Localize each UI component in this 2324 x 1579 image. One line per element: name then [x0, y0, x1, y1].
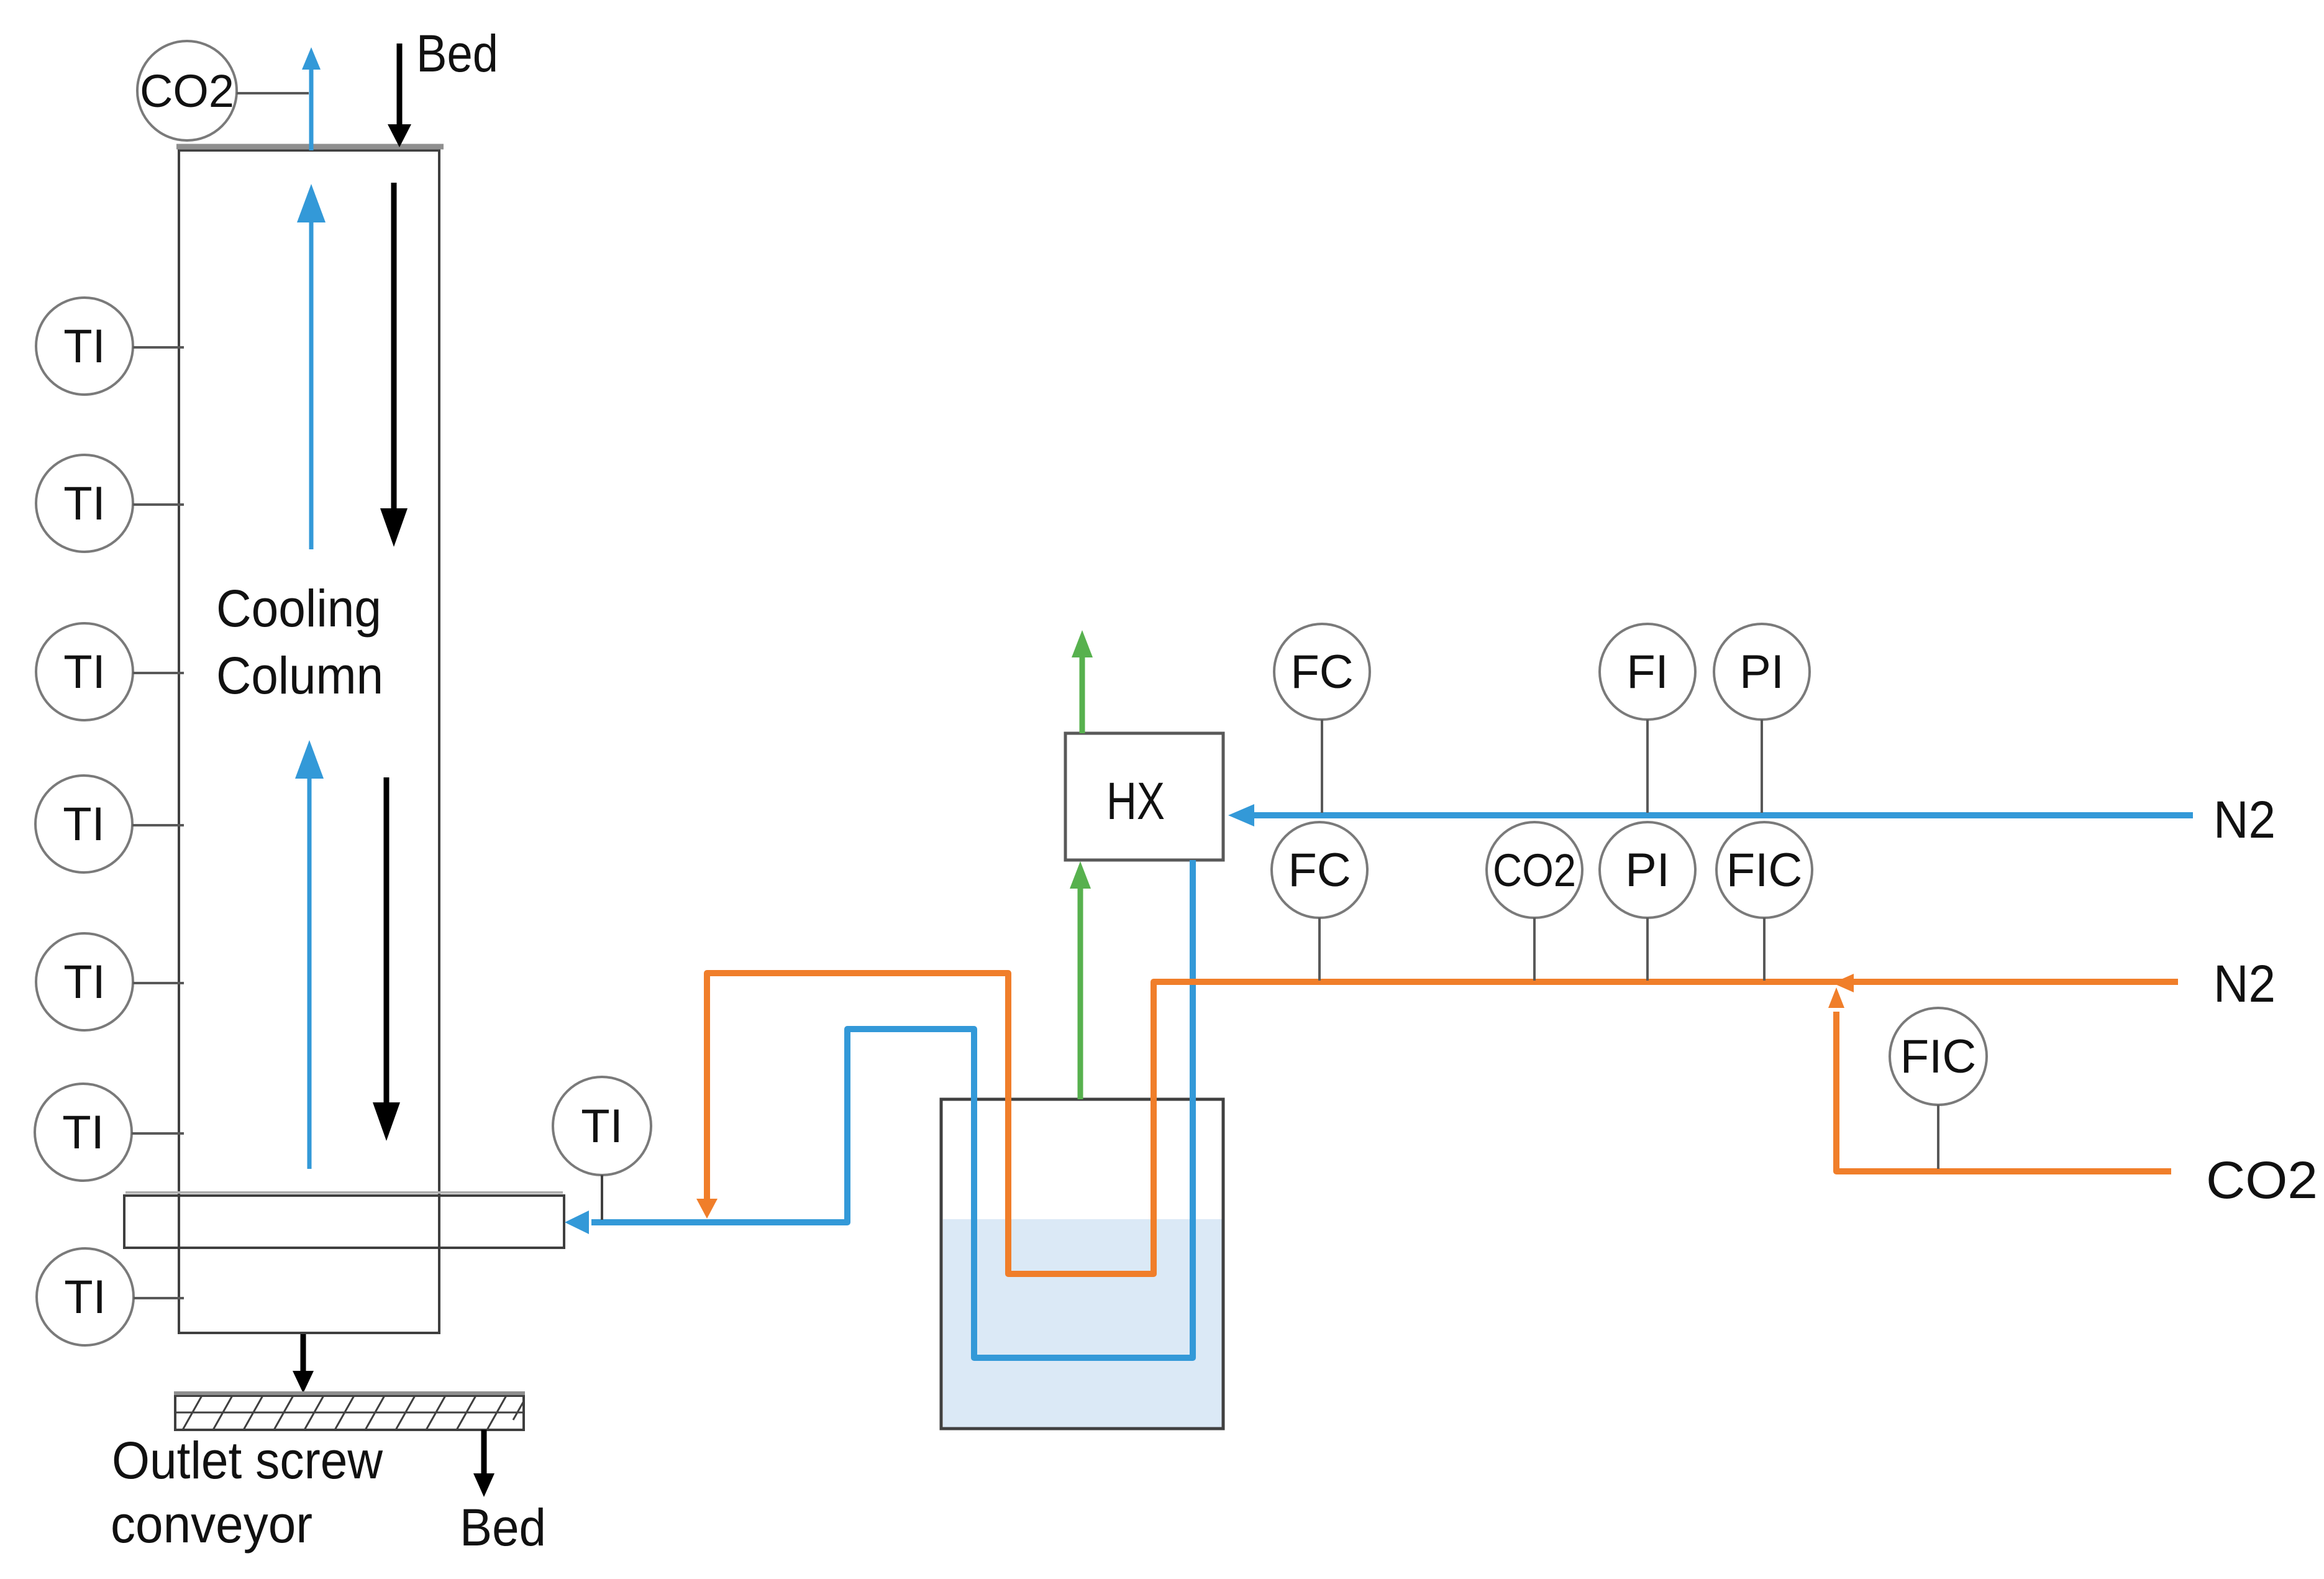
- svg-text:N2: N2: [2213, 790, 2276, 849]
- wire CO2 vent arrow (blue, out of column top): [302, 47, 321, 150]
- svg-text:TI: TI: [63, 320, 106, 373]
- instrument TI7: [37, 1248, 134, 1345]
- wire FIC CO2 stem: [1937, 1105, 1939, 1169]
- svg-text:FIC: FIC: [1726, 844, 1802, 897]
- instrument FIC on CO2 line: [1890, 1008, 1987, 1105]
- svg-text:HX: HX: [1106, 772, 1165, 830]
- svg-text:TI: TI: [63, 798, 105, 851]
- wire TI5 stub: [133, 982, 184, 984]
- wire bed outlet arrow below column: [293, 1334, 314, 1393]
- svg-text:Bed: Bed: [416, 24, 498, 83]
- svg-text:PI: PI: [1625, 844, 1670, 897]
- instrument FIC row2: [1716, 822, 1812, 918]
- cooling column vessel: [176, 147, 444, 1333]
- svg-text:TI: TI: [581, 1100, 623, 1153]
- svg-text:Bed: Bed: [460, 1498, 546, 1557]
- instrument TI6: [35, 1084, 132, 1181]
- instrument TI4: [35, 776, 132, 872]
- wire blue up arrow inside column (lower): [295, 740, 324, 1169]
- instrument CO2 top: [137, 41, 237, 140]
- wire orange left arrow at CO2 junction: [1833, 974, 1854, 992]
- wire TI1 stub: [133, 346, 184, 349]
- wire FC row2 stem: [1318, 918, 1321, 981]
- svg-text:conveyor: conveyor: [111, 1495, 312, 1554]
- wire orange N2 line with dip coil in vessel: [707, 973, 2178, 1274]
- instrument TI3: [36, 623, 133, 720]
- wire CO2 instrument stub: [237, 92, 309, 94]
- instrument FC row1: [1274, 624, 1370, 720]
- svg-text:FC: FC: [1288, 844, 1351, 897]
- svg-text:CO2: CO2: [2206, 1151, 2318, 1209]
- wire TI3 stub: [133, 672, 184, 674]
- wire blue arrow into conveyor duct: [565, 1211, 589, 1234]
- wire blue N2 main line into HX: [1228, 804, 2193, 826]
- wire black down arrow inside column (upper): [380, 183, 408, 547]
- wire PI row2 stem: [1646, 918, 1649, 981]
- wire blue up arrow inside column (upper): [297, 184, 326, 549]
- wire blue coolant line: HX down, through vessel, to conveyor: [591, 860, 1193, 1358]
- instrument TI1: [36, 298, 133, 395]
- svg-text:CO2: CO2: [140, 65, 234, 117]
- svg-text:TI: TI: [64, 1271, 106, 1324]
- label Outlet screw conveyor: [111, 1431, 383, 1554]
- svg-text:Outlet screw: Outlet screw: [112, 1431, 383, 1490]
- svg-text:TI: TI: [63, 956, 106, 1009]
- label Cooling Column: [216, 579, 383, 705]
- svg-text:Column: Column: [216, 646, 383, 705]
- wire TI mid stem: [601, 1175, 603, 1220]
- svg-text:TI: TI: [63, 646, 106, 698]
- outlet screw conveyor (hatched): [174, 1393, 525, 1430]
- instrument FC row2: [1272, 822, 1367, 918]
- instrument TI2: [36, 455, 133, 552]
- wire PI row1 stem: [1761, 720, 1763, 813]
- wire CO2 mid stem: [1533, 918, 1536, 981]
- svg-text:FI: FI: [1626, 646, 1669, 698]
- svg-text:N2: N2: [2213, 954, 2276, 1013]
- svg-text:FC: FC: [1290, 646, 1353, 698]
- instrument CO2 mid: [1487, 822, 1582, 918]
- instrument PI row2: [1600, 822, 1695, 918]
- wire TI2 stub: [133, 503, 184, 506]
- instrument PI row1: [1714, 624, 1810, 720]
- wire FI stem: [1646, 720, 1649, 813]
- wire TI4 stub: [132, 824, 184, 826]
- instrument TI mid: [553, 1077, 651, 1175]
- wire FC row1 stem: [1321, 720, 1323, 813]
- svg-text:Cooling: Cooling: [216, 579, 381, 638]
- wire TI7 stub: [134, 1297, 184, 1299]
- wire orange CO2 feed line: [1828, 987, 2171, 1171]
- cooling water vessel: [941, 1099, 1223, 1429]
- wire black down arrow inside column (lower): [373, 777, 400, 1141]
- svg-text:TI: TI: [63, 477, 106, 530]
- svg-text:CO2: CO2: [1493, 844, 1576, 896]
- svg-text:PI: PI: [1739, 646, 1784, 698]
- wire bed inlet arrow (black, into column top): [388, 43, 411, 147]
- svg-text:FIC: FIC: [1900, 1030, 1976, 1083]
- wire green vent line vessel to HX: [1070, 861, 1091, 1099]
- instrument TI5: [36, 933, 133, 1030]
- wire FIC row2 stem: [1763, 918, 1766, 981]
- svg-text:TI: TI: [62, 1106, 104, 1159]
- wire orange down arrow onto blue line: [696, 1199, 718, 1219]
- outlet screw conveyor inlet duct: [124, 1196, 564, 1248]
- wire bed outlet arrow below conveyor: [473, 1430, 494, 1497]
- wire green vent line HX to out: [1072, 630, 1093, 733]
- instrument FI: [1600, 624, 1695, 720]
- wire TI6 stub: [132, 1132, 184, 1135]
- heat exchanger HX: [1065, 733, 1223, 860]
